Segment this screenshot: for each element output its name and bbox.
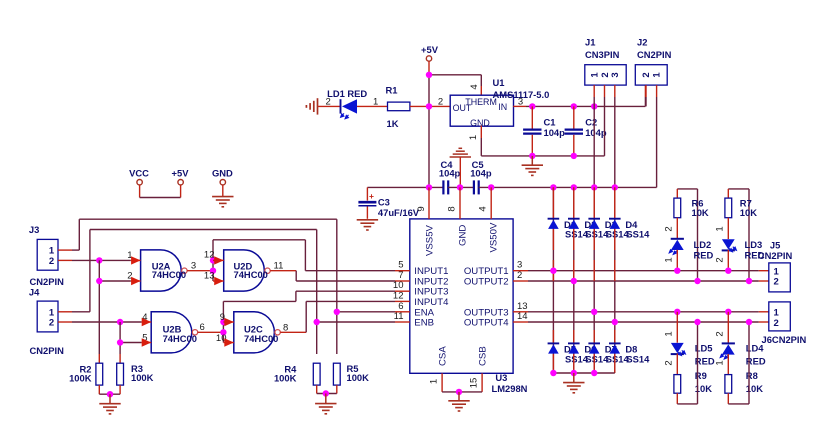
wire OUTPUT1 row	[528, 270, 769, 272]
svg-text:12: 12	[393, 290, 404, 301]
node J4.2/R3	[117, 319, 123, 325]
wire D1/D5 column	[552, 187, 554, 373]
svg-text:4: 4	[478, 206, 489, 211]
connector J3 CN2PIN	[29, 224, 64, 287]
svg-text:J1: J1	[585, 37, 595, 48]
capacitor C3 47uF/16V polarized	[358, 187, 419, 218]
svg-text:10K: 10K	[740, 207, 757, 218]
wire J1.3 to VS net	[614, 85, 616, 187]
connector J6 CN2PIN	[762, 302, 807, 345]
pin U2B.5 arrow	[141, 338, 151, 346]
diode D1 SS14	[548, 219, 589, 240]
pin U3.6 stub	[395, 301, 410, 312]
capacitor C1 104p	[523, 106, 565, 155]
resistor R4 100K	[274, 363, 320, 385]
resistor R7 10K	[725, 197, 757, 218]
wire +5V net vertical	[428, 75, 430, 188]
node D2 top	[571, 184, 577, 190]
svg-text:47uF/16V: 47uF/16V	[378, 207, 420, 218]
svg-text:OUTPUT4: OUTPUT4	[464, 318, 509, 329]
wire U2A pin2 branch	[99, 280, 131, 282]
pin U2B.4 arrow	[141, 318, 151, 326]
wire R7 top loop	[728, 189, 749, 281]
svg-text:IN: IN	[498, 102, 507, 112]
node D5 gnd	[550, 370, 556, 376]
node LD2/OUTPUT1	[674, 268, 680, 274]
svg-text:74HC00: 74HC00	[234, 269, 268, 280]
node LD3/OUTPUT1	[725, 268, 731, 274]
pin U2A.2 arrow	[131, 277, 141, 285]
node R2/U2A.2	[96, 278, 102, 284]
svg-text:4: 4	[469, 84, 480, 89]
resistor R1 1K	[386, 85, 410, 130]
wire R6 top loop	[677, 189, 697, 281]
wire ENA row to U3	[337, 311, 395, 313]
resistor R8 10K	[725, 370, 763, 394]
svg-text:2: 2	[438, 97, 443, 108]
svg-text:U1: U1	[493, 77, 505, 88]
node R8leg/OUTPUT4	[746, 319, 752, 325]
wire J4.1 to ENB net	[58, 230, 90, 312]
node ENB junction	[314, 319, 320, 325]
pin U3.1 stub	[429, 373, 443, 392]
wire diode gnd row	[553, 372, 614, 374]
ground R4/R5	[315, 394, 336, 414]
svg-text:+: +	[369, 191, 374, 201]
svg-text:100K: 100K	[131, 372, 154, 383]
node GND pin column	[457, 184, 463, 190]
pin U3.5 stub	[395, 260, 410, 271]
resistor R3 100K	[117, 363, 154, 385]
svg-text:SS14: SS14	[626, 229, 650, 240]
pin U3.15 stub	[469, 373, 483, 392]
svg-text:104p: 104p	[470, 168, 492, 179]
node C2 top	[571, 103, 577, 109]
svg-text:C2: C2	[585, 117, 597, 128]
pin U2D.13 arrow	[213, 277, 224, 285]
wire J2.2 to +5V net	[645, 85, 647, 106]
pin U1.4 number	[469, 84, 480, 89]
svg-text:CSB: CSB	[478, 346, 489, 366]
svg-text:2: 2	[715, 331, 726, 336]
wire ENA top run	[79, 219, 337, 354]
svg-text:1: 1	[468, 135, 479, 140]
wire ENB top run	[90, 230, 317, 355]
svg-text:74HC00: 74HC00	[163, 333, 197, 344]
svg-text:1: 1	[715, 360, 726, 365]
node LD5/OUTPUT3	[674, 309, 680, 315]
pin U3.2 stub	[513, 270, 528, 281]
wire OUTPUT3 row	[528, 311, 769, 313]
wire U2B pin5 branch	[120, 342, 141, 344]
pin U3.3 stub	[513, 260, 528, 271]
wire LD4 to R8	[715, 354, 729, 375]
node C1 bottom	[529, 153, 535, 159]
svg-text:J4: J4	[29, 287, 40, 298]
node ENA junction	[334, 309, 340, 315]
node J3.2/R2	[96, 257, 102, 263]
svg-text:1: 1	[664, 331, 675, 336]
wire J1.1 stub	[593, 85, 595, 106]
node U2C.9	[220, 319, 226, 325]
node D1 top	[550, 184, 556, 190]
LED LD1	[326, 88, 368, 119]
pin U3.13 stub	[513, 301, 528, 312]
LED LD4 RED	[720, 342, 766, 366]
svg-text:CN2PIN: CN2PIN	[30, 276, 65, 287]
wire LD4 column	[715, 312, 729, 343]
op-amp U1 AMS1117-5.0 body	[450, 77, 549, 128]
pin U3.9 stub	[416, 187, 429, 219]
wire R3 column	[119, 322, 121, 363]
connector J4 CN2PIN	[29, 287, 64, 357]
svg-text:OUTPUT2: OUTPUT2	[464, 277, 509, 288]
pin U1.2 number	[438, 97, 443, 108]
node D4 output row	[612, 319, 618, 325]
wire D4/D8 column	[614, 187, 616, 373]
wire LD5 to R9	[664, 354, 678, 375]
wire U2D output to INPUT2	[270, 271, 395, 281]
wire R2 column	[98, 260, 100, 363]
diode D5 SS14	[548, 343, 589, 364]
gate U2B 74HC00	[142, 312, 205, 353]
capacitor C5 104p	[470, 159, 492, 194]
wire U2A output	[187, 270, 213, 272]
wire LD1 anode	[318, 105, 340, 107]
svg-text:9: 9	[220, 312, 225, 323]
pin U1.3	[513, 97, 526, 108]
svg-text:J5: J5	[770, 239, 780, 250]
power GND	[212, 167, 233, 196]
svg-text:SS14: SS14	[626, 353, 650, 364]
wire U2D input ladder	[213, 240, 305, 281]
svg-text:GND: GND	[212, 167, 233, 178]
wire U2C output to INPUT4	[280, 301, 395, 332]
wire R9 bottom loop	[677, 322, 697, 404]
wire LD1 to R1	[357, 97, 388, 108]
resistor R9 10K	[674, 370, 712, 394]
node C1 top	[529, 103, 535, 109]
wire OUTPUT2 row	[528, 280, 769, 282]
wire LD2 to OUTPUT1	[664, 250, 678, 271]
gate U2C 74HC00	[216, 312, 288, 353]
svg-text:2: 2	[49, 256, 54, 267]
node R7leg/OUTPUT2	[746, 278, 752, 284]
resistor R6 10K	[674, 197, 709, 218]
node R3/U2B.5	[117, 339, 123, 345]
svg-text:J3: J3	[29, 224, 39, 235]
svg-text:GND: GND	[470, 118, 490, 128]
svg-text:13: 13	[204, 271, 215, 282]
svg-text:104p: 104p	[585, 127, 607, 138]
wire J2.1 to VS net	[656, 85, 658, 187]
wire J1.2 to GND net	[604, 85, 606, 156]
wire OUTPUT4 row	[528, 321, 769, 323]
svg-text:LD1 RED: LD1 RED	[327, 88, 367, 99]
svg-text:104p: 104p	[544, 127, 566, 138]
svg-text:VCC: VCC	[129, 167, 149, 178]
pin U3.11 stub	[394, 311, 410, 322]
svg-text:11: 11	[274, 260, 284, 271]
pin U2C.9 arrow	[223, 318, 233, 326]
node D2 output row	[571, 278, 577, 284]
svg-text:CSA: CSA	[438, 346, 449, 366]
diode D3 SS14	[588, 219, 629, 240]
diode D6 SS14	[568, 343, 609, 364]
node U2C.10	[220, 329, 226, 335]
wire U3 bottom CSA-CSB	[442, 391, 482, 393]
ground U3 bottom	[448, 392, 469, 411]
svg-text:74HC00: 74HC00	[244, 333, 278, 344]
svg-text:74HC00: 74HC00	[152, 269, 186, 280]
wire D2/D6 column	[573, 187, 575, 373]
svg-text:CN2PIN: CN2PIN	[30, 345, 65, 356]
svg-text:100K: 100K	[274, 373, 297, 384]
svg-text:2: 2	[641, 72, 652, 77]
wire R8 bottom loop	[728, 322, 749, 404]
svg-text:ENB: ENB	[414, 318, 434, 329]
node J1.1	[591, 103, 597, 109]
pin U3.12 stub	[393, 290, 410, 301]
svg-text:2: 2	[517, 270, 522, 281]
wire INPUT1 row	[305, 270, 395, 272]
svg-text:LM298N: LM298N	[492, 383, 528, 394]
ground R2/R3	[99, 394, 120, 414]
wire ENB row to U3	[317, 321, 395, 323]
node R4/R5 gnd	[323, 390, 329, 396]
svg-text:+5V: +5V	[172, 167, 190, 178]
svg-text:6: 6	[200, 322, 205, 333]
wire GND net under U1	[481, 155, 604, 157]
wire R7 to LD3	[715, 218, 729, 239]
svg-text:2: 2	[774, 318, 779, 329]
wire VS row right segment	[479, 186, 657, 188]
ground diodes	[563, 373, 584, 393]
svg-text:R1: R1	[386, 85, 398, 96]
connector J5 CN2PIN	[758, 239, 793, 292]
node U2D.13	[210, 268, 216, 274]
diode D4 SS14	[609, 219, 650, 240]
svg-text:1: 1	[373, 97, 378, 108]
svg-text:U3: U3	[495, 372, 507, 383]
svg-text:1: 1	[664, 257, 675, 262]
pin U2D.12 arrow	[213, 256, 224, 264]
svg-text:10K: 10K	[692, 207, 709, 218]
wire R1 to node	[410, 105, 450, 107]
capacitor C4 104p	[439, 159, 461, 194]
wire VCC to +5V	[140, 197, 181, 199]
wire D3/D7 column	[593, 187, 595, 373]
node D6 gnd	[571, 370, 577, 376]
gate U2D 74HC00	[204, 250, 283, 291]
svg-text:J2: J2	[637, 37, 647, 48]
wire J3.1 to ENA net	[58, 219, 79, 250]
node VSS5V column	[426, 184, 432, 190]
svg-text:2: 2	[664, 226, 675, 231]
node D4 top	[612, 184, 618, 190]
svg-text:GND: GND	[457, 225, 468, 246]
pin U3.14 stub	[513, 311, 528, 322]
pin U2A.1 arrow	[131, 256, 141, 264]
svg-text:OUT: OUT	[453, 103, 472, 113]
wire +5V output net	[526, 85, 645, 106]
wire +5V to U1 pin4	[429, 75, 481, 95]
svg-text:2: 2	[774, 277, 779, 288]
power +5V mid	[172, 167, 190, 197]
svg-text:12: 12	[204, 250, 215, 261]
wire R2/R3 bottoms	[99, 385, 120, 394]
wire VS row mid segment	[448, 186, 474, 188]
svg-text:R8: R8	[746, 370, 758, 381]
node R1 output	[426, 103, 432, 109]
svg-text:RED: RED	[694, 249, 714, 260]
svg-text:15: 15	[469, 378, 480, 389]
node U2D.12	[210, 257, 216, 263]
ground C3	[357, 220, 378, 230]
svg-text:VSS5V: VSS5V	[425, 224, 436, 256]
svg-text:2: 2	[326, 97, 331, 108]
LED LD5 RED	[671, 342, 715, 366]
svg-text:3: 3	[610, 72, 621, 77]
ground LD1 (rotated earth)	[306, 98, 317, 114]
wire J4.2 net	[58, 321, 141, 323]
node R6leg/OUTPUT2	[694, 278, 700, 284]
svg-text:2: 2	[715, 257, 726, 262]
svg-text:J6CN2PIN: J6CN2PIN	[762, 334, 807, 345]
diode D8 SS14	[609, 343, 650, 364]
capacitor C2 104p	[565, 106, 607, 155]
svg-text:1: 1	[715, 226, 726, 231]
svg-text:3: 3	[518, 97, 523, 108]
resistor R2 100K	[69, 363, 103, 385]
LED LD2 RED	[669, 239, 713, 260]
power VCC	[129, 167, 149, 197]
LED LD3 RED	[722, 239, 765, 260]
node D7 gnd	[591, 370, 597, 376]
svg-text:R9: R9	[695, 370, 707, 381]
svg-text:CN2PIN: CN2PIN	[637, 49, 672, 60]
wire LD3 to OUTPUT1	[715, 250, 729, 271]
pin U3.8 stub	[447, 187, 461, 219]
svg-text:1K: 1K	[387, 118, 399, 129]
pin U1.1 GND	[468, 126, 482, 156]
svg-text:2: 2	[664, 360, 675, 365]
svg-text:1: 1	[652, 72, 663, 78]
svg-text:CN2PIN: CN2PIN	[758, 250, 793, 261]
pin U2C.10 arrow	[223, 338, 233, 346]
wire R6 to LD2	[664, 218, 678, 239]
wire INPUT3 row	[296, 290, 395, 292]
node +5V junction	[426, 72, 432, 78]
wire LD5 column	[664, 312, 678, 343]
svg-text:9: 9	[416, 206, 427, 211]
svg-text:11: 11	[394, 311, 404, 322]
wire R4/R5 bottoms	[317, 385, 337, 393]
node R2/R3 gnd	[107, 391, 113, 397]
pin U3.7 stub	[395, 270, 410, 281]
wire J3.2 net	[58, 259, 131, 261]
svg-text:100K: 100K	[347, 372, 370, 383]
node D1 output row	[550, 268, 556, 274]
ground inverted above GND pin	[450, 148, 471, 187]
node C2 bottom	[571, 153, 577, 159]
node LD4/OUTPUT3	[725, 309, 731, 315]
svg-text:1: 1	[429, 379, 440, 384]
svg-text:3: 3	[191, 261, 196, 272]
diode D2 SS14	[568, 219, 609, 240]
connector J1 CN3PIN	[585, 37, 626, 86]
ground GND symbol	[212, 197, 233, 207]
power +5V	[421, 44, 439, 75]
svg-text:100K: 100K	[69, 373, 92, 384]
node D3 output row	[591, 309, 597, 315]
wire U2B output	[198, 331, 224, 333]
node CSA/CSB gnd	[456, 389, 462, 395]
svg-text:C1: C1	[544, 117, 556, 128]
svg-text:VS50V: VS50V	[488, 222, 499, 252]
connector J2 CN2PIN	[635, 37, 671, 86]
pin U3.4 stub	[478, 187, 492, 219]
svg-text:8: 8	[447, 206, 458, 211]
gate U2A 74HC00	[127, 250, 196, 291]
resistor R5 100K	[333, 363, 369, 385]
svg-text:CN3PIN: CN3PIN	[585, 49, 620, 60]
svg-text:+5V: +5V	[421, 44, 439, 55]
svg-text:104p: 104p	[439, 168, 461, 179]
pin U3.10 stub	[393, 280, 410, 291]
diode D7 SS14	[588, 343, 629, 364]
wire U2C input ladder	[223, 291, 296, 342]
ground U1/C1/C2	[522, 156, 543, 176]
svg-text:14: 14	[517, 311, 528, 322]
wire VS row left segment	[367, 186, 443, 188]
node VS50V pin column	[488, 184, 494, 190]
node R9leg/OUTPUT4	[694, 319, 700, 325]
svg-text:2: 2	[49, 318, 54, 329]
wire D3 column to +5V net	[593, 106, 595, 187]
node D3 top	[591, 184, 597, 190]
IC U3 LM298N body	[410, 219, 528, 394]
